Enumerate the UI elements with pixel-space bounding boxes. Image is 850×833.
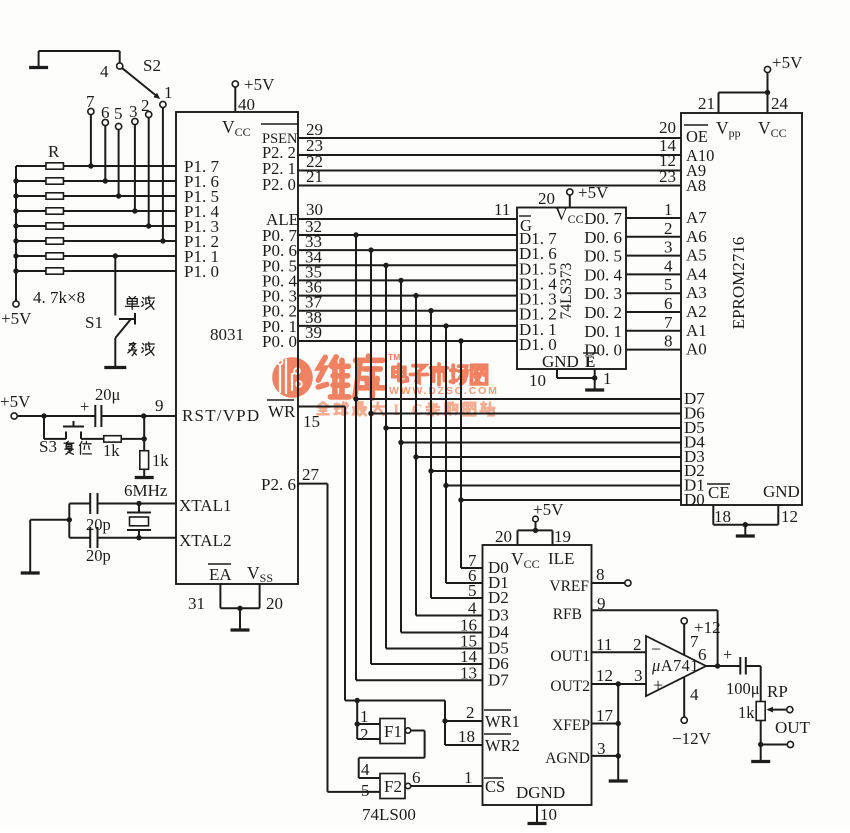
svg-text:20p: 20p xyxy=(86,546,111,565)
svg-text:9: 9 xyxy=(597,594,606,613)
svg-text:10: 10 xyxy=(529,371,546,390)
svg-text:CS: CS xyxy=(485,777,505,796)
svg-text:OE: OE xyxy=(686,127,708,146)
svg-text:1: 1 xyxy=(360,707,369,726)
svg-text:1: 1 xyxy=(164,83,173,102)
svg-text:EPROM2716: EPROM2716 xyxy=(729,237,748,330)
svg-text:9: 9 xyxy=(155,396,164,415)
svg-text:S3: S3 xyxy=(39,437,57,456)
svg-text:12: 12 xyxy=(781,507,798,526)
svg-text:CE: CE xyxy=(708,483,730,502)
svg-text:D0: D0 xyxy=(684,490,705,509)
svg-text:A8: A8 xyxy=(686,176,706,195)
svg-text:ILE: ILE xyxy=(548,549,574,568)
svg-text:XFEP: XFEP xyxy=(552,717,590,734)
svg-text:8031: 8031 xyxy=(210,325,244,344)
svg-text:+12: +12 xyxy=(694,618,721,637)
svg-text:3: 3 xyxy=(634,666,643,685)
svg-text:D0. 7: D0. 7 xyxy=(584,209,622,228)
svg-text:4: 4 xyxy=(664,256,673,275)
svg-text:E: E xyxy=(585,354,595,371)
svg-text:TM: TM xyxy=(388,352,400,362)
svg-text:4. 7k×8: 4. 7k×8 xyxy=(33,288,85,307)
svg-text:19: 19 xyxy=(554,527,571,546)
svg-text:1k: 1k xyxy=(103,441,120,460)
svg-text:5: 5 xyxy=(361,781,370,800)
svg-text:6: 6 xyxy=(698,645,707,664)
svg-text:+: + xyxy=(723,645,732,664)
svg-text:11: 11 xyxy=(596,635,612,654)
svg-text:C: C xyxy=(412,402,423,419)
svg-text:6: 6 xyxy=(664,294,673,313)
svg-text:+: + xyxy=(80,397,89,416)
svg-text:24: 24 xyxy=(771,94,789,113)
svg-text:P2. 6: P2. 6 xyxy=(261,475,296,494)
svg-text:A2: A2 xyxy=(686,302,707,321)
svg-text:D0. 2: D0. 2 xyxy=(584,303,622,322)
svg-text:1: 1 xyxy=(603,369,612,388)
svg-text:15: 15 xyxy=(303,412,320,431)
svg-text:A5: A5 xyxy=(686,246,707,265)
svg-text:2: 2 xyxy=(466,703,475,722)
svg-text:μA741: μA741 xyxy=(651,656,699,675)
svg-text:1: 1 xyxy=(464,768,473,787)
svg-text:A3: A3 xyxy=(686,283,707,302)
svg-text:20μ: 20μ xyxy=(95,385,121,404)
svg-text:A4: A4 xyxy=(686,264,707,283)
svg-text:F1: F1 xyxy=(384,722,402,741)
svg-text:WR: WR xyxy=(268,402,296,421)
svg-text:5: 5 xyxy=(468,581,477,600)
svg-text:3: 3 xyxy=(129,102,138,121)
svg-text:23: 23 xyxy=(659,167,676,186)
svg-text:+5V: +5V xyxy=(0,392,31,411)
svg-text:RP: RP xyxy=(767,682,788,701)
svg-text:P1. 0: P1. 0 xyxy=(184,262,219,281)
svg-text:S1: S1 xyxy=(85,313,103,332)
svg-text:R: R xyxy=(48,142,60,161)
svg-text:8: 8 xyxy=(596,565,605,584)
svg-text:RFB: RFB xyxy=(553,606,582,623)
svg-text:A1: A1 xyxy=(686,321,707,340)
svg-text:VREF: VREF xyxy=(549,578,589,595)
svg-text:F2: F2 xyxy=(384,777,402,796)
svg-text:100μ: 100μ xyxy=(726,679,760,698)
svg-text:P0. 0: P0. 0 xyxy=(262,332,297,351)
svg-text:D0. 5: D0. 5 xyxy=(584,247,622,266)
svg-text:WR2: WR2 xyxy=(485,736,520,755)
svg-text:RST/VPD: RST/VPD xyxy=(182,406,260,425)
svg-text:1k: 1k xyxy=(738,703,755,722)
svg-text:1k: 1k xyxy=(152,451,169,470)
svg-text:XTAL2: XTAL2 xyxy=(179,531,231,550)
svg-text:+: + xyxy=(653,675,663,695)
svg-text:D0. 6: D0. 6 xyxy=(584,228,622,247)
svg-text:2: 2 xyxy=(633,635,642,654)
svg-text:A6: A6 xyxy=(686,227,707,246)
svg-text:8: 8 xyxy=(664,332,673,351)
svg-text:D0. 1: D0. 1 xyxy=(584,322,622,341)
svg-text:+5V: +5V xyxy=(1,309,32,328)
svg-text:+5V: +5V xyxy=(244,75,275,94)
svg-text:7: 7 xyxy=(664,313,673,332)
svg-text:−12V: −12V xyxy=(672,729,712,748)
svg-text:+5V: +5V xyxy=(578,183,609,202)
svg-text:D7: D7 xyxy=(488,670,509,689)
svg-text:31: 31 xyxy=(188,594,205,613)
svg-text:27: 27 xyxy=(302,465,320,484)
svg-text:74LS00: 74LS00 xyxy=(362,805,416,824)
svg-text:6MHz: 6MHz xyxy=(124,481,168,500)
svg-text:P2. 0: P2. 0 xyxy=(262,175,296,194)
svg-text:A0: A0 xyxy=(686,340,707,359)
svg-text:18: 18 xyxy=(458,727,475,746)
svg-text:17: 17 xyxy=(596,706,614,725)
svg-text:11: 11 xyxy=(494,200,510,219)
svg-text:WWW.DZSC.COM: WWW.DZSC.COM xyxy=(389,385,499,397)
svg-text:A7: A7 xyxy=(686,208,707,227)
svg-text:4: 4 xyxy=(100,62,109,81)
svg-text:XTAL1: XTAL1 xyxy=(179,496,231,515)
svg-text:+5V: +5V xyxy=(772,53,803,72)
svg-text:4: 4 xyxy=(361,760,370,779)
svg-text:13: 13 xyxy=(460,663,477,682)
svg-text:1: 1 xyxy=(664,200,673,219)
svg-text:12: 12 xyxy=(596,666,613,685)
svg-text:2: 2 xyxy=(360,725,369,744)
svg-text:+5V: +5V xyxy=(533,500,564,519)
svg-text:OUT1: OUT1 xyxy=(550,648,590,665)
svg-text:20: 20 xyxy=(495,527,512,546)
svg-text:6: 6 xyxy=(101,103,110,122)
svg-text:AGND: AGND xyxy=(545,750,590,767)
svg-text:5: 5 xyxy=(114,104,123,123)
svg-text:10: 10 xyxy=(540,805,557,824)
svg-text:5: 5 xyxy=(664,275,673,294)
svg-text:20: 20 xyxy=(266,594,283,613)
svg-text:39: 39 xyxy=(305,323,322,342)
svg-text:6: 6 xyxy=(412,768,421,787)
svg-text:20: 20 xyxy=(538,189,555,208)
svg-text:3: 3 xyxy=(597,739,606,758)
svg-text:20p: 20p xyxy=(86,515,111,534)
svg-text:D2: D2 xyxy=(488,588,509,607)
svg-text:OUT: OUT xyxy=(775,718,811,737)
svg-text:GND: GND xyxy=(763,482,800,501)
svg-text:OUT2: OUT2 xyxy=(550,678,590,695)
svg-text:2: 2 xyxy=(141,96,150,115)
svg-text:2: 2 xyxy=(664,219,673,238)
svg-text:EA: EA xyxy=(209,565,232,584)
svg-text:40: 40 xyxy=(238,95,255,114)
svg-text:20: 20 xyxy=(659,118,676,137)
svg-text:21: 21 xyxy=(306,167,323,186)
svg-text:4: 4 xyxy=(690,685,699,704)
svg-text:GND: GND xyxy=(542,352,579,371)
svg-text:18: 18 xyxy=(714,507,731,526)
svg-text:74LS373: 74LS373 xyxy=(558,262,575,319)
svg-text:D0. 3: D0. 3 xyxy=(584,284,622,303)
svg-text:D0. 4: D0. 4 xyxy=(584,265,622,284)
svg-text:7: 7 xyxy=(86,92,95,111)
svg-text:S2: S2 xyxy=(143,56,161,75)
svg-text:WR1: WR1 xyxy=(485,712,520,731)
svg-text:I: I xyxy=(393,402,399,419)
svg-text:DGND: DGND xyxy=(516,783,565,802)
svg-text:3: 3 xyxy=(664,238,673,257)
svg-text:21: 21 xyxy=(698,94,715,113)
